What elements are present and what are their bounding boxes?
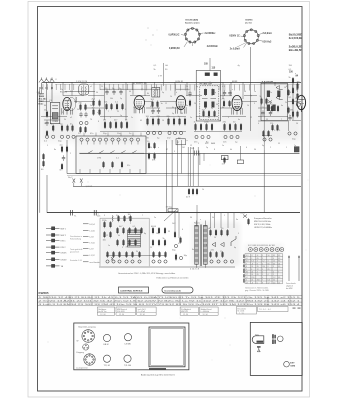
wire stub bbox=[99, 169, 101, 173]
svg-text:MW KW: MW KW bbox=[181, 311, 188, 313]
wire bbox=[39, 87, 41, 213]
svg-text:101: 101 bbox=[182, 147, 185, 149]
svg-text:2: 2 bbox=[230, 105, 231, 107]
svg-text:9: 9 bbox=[228, 117, 229, 119]
tube socket diagram U101 bbox=[184, 27, 200, 43]
push-button switch unit box bbox=[76, 136, 146, 173]
wire link bbox=[186, 95, 202, 97]
panel jack EB M bbox=[103, 334, 110, 341]
wire riser to IF box bbox=[209, 58, 211, 71]
voltage table header labels bbox=[248, 244, 275, 247]
resistor R109 bbox=[216, 251, 218, 258]
svg-text:24: 24 bbox=[278, 263, 280, 265]
diode D1 bbox=[276, 86, 283, 90]
resistor R7 bbox=[80, 104, 82, 111]
svg-text:4: 4 bbox=[268, 274, 269, 276]
resistor R28 bbox=[158, 118, 160, 126]
resistor R114 bbox=[288, 107, 290, 114]
svg-text:9p: 9p bbox=[196, 86, 198, 88]
svg-text:9: 9 bbox=[262, 282, 263, 284]
capacitor C42 bbox=[261, 110, 264, 116]
wire drop bbox=[230, 82, 232, 96]
wire link bbox=[44, 119, 60, 121]
svg-text:Bd.I0,3/5E: Bd.I0,3/5E bbox=[289, 32, 302, 36]
svg-text:-8: -8 bbox=[246, 277, 248, 279]
svg-text:x: x bbox=[200, 219, 201, 221]
wire drop x240 bbox=[240, 146, 242, 160]
svg-text:33: 33 bbox=[266, 119, 268, 121]
wire vertical x188 bbox=[187, 147, 189, 186]
resistor R15 bbox=[106, 103, 108, 110]
wire link bbox=[258, 107, 272, 109]
wire drop bbox=[163, 82, 165, 86]
svg-text:4k: 4k bbox=[118, 235, 120, 237]
wire link bbox=[262, 135, 272, 137]
wire bus y153 bbox=[80, 152, 300, 154]
scan artifact bbox=[145, 27, 157, 45]
resistor R64 bbox=[66, 146, 68, 153]
svg-text:-8: -8 bbox=[251, 282, 253, 284]
tube V1b ghost envelope bbox=[67, 97, 75, 110]
mains plug symbol bbox=[252, 336, 264, 352]
parts table sub box D bbox=[237, 307, 257, 316]
resistor R12 bbox=[99, 109, 101, 116]
svg-text:30: 30 bbox=[190, 217, 192, 219]
svg-text:25: 25 bbox=[101, 86, 103, 88]
resistor R107 bbox=[227, 229, 229, 236]
svg-text:alt. frei: alt. frei bbox=[245, 21, 252, 24]
capacitor C8 bbox=[79, 112, 82, 118]
tube top view U2 bbox=[254, 248, 258, 252]
svg-text:ECC EBF ECH EF89 EL AZ EM: ECC EBF ECH EF89 EL AZ EM bbox=[248, 244, 275, 247]
electrolytic C60 bbox=[210, 260, 213, 263]
svg-text:17: 17 bbox=[246, 282, 248, 284]
wire stub bbox=[89, 169, 91, 173]
capacitor C35 bbox=[228, 90, 231, 96]
electrolytic C54 bbox=[131, 260, 134, 263]
svg-text:12. 34: 12. 34 bbox=[140, 314, 145, 316]
wire AVC line bbox=[55, 83, 300, 85]
svg-text:7: 7 bbox=[142, 215, 143, 217]
scan specks bbox=[48, 165, 309, 361]
ratio detector T3 can bbox=[261, 83, 287, 120]
electrolytic C45 bbox=[263, 138, 266, 141]
svg-text:97: 97 bbox=[141, 89, 143, 91]
resistor R115 bbox=[297, 93, 299, 100]
resistor R53 bbox=[297, 83, 299, 90]
svg-text:Gegentakt-ausgang: Gegentakt-ausgang bbox=[78, 326, 96, 329]
svg-text:0: 0 bbox=[257, 282, 258, 284]
resistor R57 bbox=[263, 130, 265, 137]
svg-text:12: 12 bbox=[106, 235, 108, 237]
svg-text:-8: -8 bbox=[246, 258, 248, 260]
rectifier diode D3 bbox=[212, 242, 216, 246]
coil can L1 bbox=[79, 84, 89, 95]
resistor R5 bbox=[67, 125, 69, 132]
capacitor C47 bbox=[62, 155, 65, 161]
wire link bbox=[220, 95, 232, 97]
wire drop x67 bbox=[66, 140, 68, 174]
svg-text:Drucktasten in: Drucktasten in bbox=[70, 235, 82, 238]
resistor R9 bbox=[93, 100, 95, 107]
svg-text:Entbrummer auf Minimum einstel: Entbrummer auf Minimum einstellen bbox=[157, 277, 189, 280]
svg-text:L1,16: L1,16 bbox=[90, 230, 96, 232]
svg-text:geg. Chassis 220V~ St. MW: geg. Chassis 220V~ St. MW bbox=[245, 289, 269, 292]
svg-text:2xU300Hz: 2xU300Hz bbox=[205, 33, 217, 35]
resistor R18 bbox=[122, 103, 124, 110]
svg-text:8k: 8k bbox=[147, 93, 149, 95]
svg-text:KW 1: KW 1 bbox=[61, 241, 67, 243]
svg-text:7: 7 bbox=[262, 280, 263, 282]
svg-text:6p: 6p bbox=[157, 106, 159, 108]
coil L4 bbox=[112, 216, 113, 222]
svg-text:EF89: EF89 bbox=[232, 81, 238, 83]
left margin black mark bbox=[39, 94, 46, 106]
resistor R73 bbox=[130, 215, 132, 222]
wire link bbox=[147, 130, 186, 132]
wire vertical x172 bbox=[171, 140, 173, 213]
IF transformer T2 dashed can bbox=[200, 86, 219, 120]
svg-text:17M: 17M bbox=[97, 158, 101, 160]
wire bus y212.8 bbox=[47, 212, 300, 214]
svg-text:L1,12: L1,12 bbox=[90, 255, 96, 257]
switch legend wire L2,9 bbox=[83, 248, 89, 250]
svg-text:0,5: 0,5 bbox=[55, 121, 58, 123]
wire resistor row link bbox=[106, 255, 166, 257]
wire link bbox=[84, 107, 104, 109]
svg-text:5: 5 bbox=[238, 233, 239, 235]
wire drop bbox=[209, 81, 211, 84]
svg-text:1,2: 1,2 bbox=[262, 261, 264, 263]
transformer core lines bbox=[200, 225, 201, 267]
audio stage boundary bbox=[100, 218, 149, 266]
svg-text:Zwischenkr.: Zwischenkr. bbox=[286, 282, 296, 285]
svg-text:2x0,9mA: 2x0,9mA bbox=[262, 32, 272, 35]
resistor R81 bbox=[135, 227, 137, 234]
IF unit top terminal 10 bbox=[214, 73, 218, 76]
resistor R91 bbox=[132, 251, 134, 258]
wire drop left bbox=[46, 175, 48, 213]
svg-text:45: 45 bbox=[140, 120, 142, 122]
electrolytic C40 bbox=[230, 135, 233, 138]
dial window bbox=[149, 327, 185, 367]
svg-text:W: W bbox=[77, 341, 79, 343]
electrolytic C61 bbox=[217, 260, 220, 263]
wire drop x204 bbox=[203, 153, 205, 161]
svg-text:I-M M0: I-M M0 bbox=[125, 343, 132, 345]
svg-text:47: 47 bbox=[178, 243, 180, 245]
resistor R76 bbox=[104, 231, 106, 238]
indicator jack EZ bbox=[278, 336, 284, 342]
svg-text:2n: 2n bbox=[90, 105, 92, 107]
svg-text:1: 1 bbox=[199, 119, 200, 121]
wire drop x200 bbox=[199, 153, 201, 165]
svg-text:9: 9 bbox=[262, 274, 263, 276]
svg-text:2M: 2M bbox=[290, 110, 293, 112]
switch legend contact KW 2 bbox=[46, 246, 60, 249]
svg-text:0,1: 0,1 bbox=[222, 86, 225, 88]
panel jack T,2L M0 bbox=[124, 355, 131, 362]
wire stub bbox=[95, 133, 97, 137]
svg-text:1M log: 1M log bbox=[166, 207, 173, 209]
svg-text:12: 12 bbox=[250, 117, 252, 119]
svg-text:1p: 1p bbox=[120, 115, 122, 117]
svg-text:2M: 2M bbox=[194, 103, 197, 105]
svg-text:7: 7 bbox=[108, 111, 109, 113]
resistor R83 bbox=[117, 239, 119, 246]
svg-text:85: 85 bbox=[278, 261, 280, 263]
resistor R104 bbox=[210, 229, 212, 236]
wire link bbox=[41, 116, 67, 118]
wire link bbox=[88, 95, 104, 97]
electrolytic C11 bbox=[85, 121, 88, 124]
svg-text:1n: 1n bbox=[61, 89, 63, 91]
wire grid line V1 bbox=[65, 91, 95, 93]
tube V3 ECH81 bbox=[176, 96, 186, 114]
note below voltage table bbox=[245, 287, 269, 293]
svg-text:70: 70 bbox=[226, 235, 228, 237]
svg-text:Lautsprecher: Lautsprecher bbox=[76, 367, 88, 370]
IF unit shield box bbox=[196, 71, 220, 122]
svg-text:8: 8 bbox=[268, 266, 269, 268]
parts table row text bbox=[39, 296, 300, 306]
wire link bbox=[258, 120, 288, 122]
wire drop bbox=[227, 213, 229, 228]
svg-text:85: 85 bbox=[273, 255, 275, 257]
X cap in audio row bbox=[111, 257, 114, 260]
wire vertical x193 bbox=[192, 147, 194, 186]
legend mid notes bbox=[70, 235, 83, 262]
svg-text:4: 4 bbox=[273, 272, 274, 274]
socket U101 pin leads bbox=[181, 33, 204, 47]
svg-text:65: 65 bbox=[278, 277, 280, 279]
resistor R65 bbox=[61, 163, 63, 170]
svg-text:85: 85 bbox=[257, 266, 259, 268]
capacitor C26 bbox=[157, 108, 160, 114]
electrolytic C67 bbox=[294, 132, 297, 135]
wire vertical x198 bbox=[197, 147, 199, 186]
capacitor C16 bbox=[105, 89, 108, 95]
svg-text:ECC85: ECC85 bbox=[60, 92, 68, 94]
svg-text:6: 6 bbox=[182, 229, 183, 231]
svg-text:33: 33 bbox=[168, 231, 170, 233]
svg-text:6p: 6p bbox=[234, 247, 236, 249]
resistor R62 bbox=[121, 161, 123, 168]
resistor R38 bbox=[229, 100, 231, 107]
svg-text:UKW1: UKW1 bbox=[61, 253, 68, 255]
power transformer T4 secondary winding bbox=[203, 226, 207, 265]
svg-text:3: 3 bbox=[262, 255, 263, 257]
svg-text:6: 6 bbox=[290, 92, 291, 94]
svg-text:x: x bbox=[158, 147, 159, 149]
capacitor C2 bbox=[45, 120, 48, 126]
electrolytic C41 bbox=[236, 135, 239, 138]
wire vertical x190 bbox=[190, 147, 192, 186]
wire drop bbox=[125, 82, 127, 120]
svg-text:7: 7 bbox=[246, 263, 247, 265]
svg-text:85: 85 bbox=[278, 255, 280, 257]
svg-text:65: 65 bbox=[278, 258, 280, 260]
svg-text:10: 10 bbox=[162, 120, 164, 122]
electrolytic C63 bbox=[230, 260, 233, 263]
electrolytic C30 bbox=[168, 131, 171, 134]
tube top view U4 bbox=[265, 248, 269, 252]
wire bus y175.5 bbox=[67, 175, 301, 177]
switch legend wire L7,10 bbox=[83, 242, 89, 244]
resistor R110 bbox=[222, 251, 224, 258]
svg-text:17: 17 bbox=[251, 255, 253, 257]
wire riser x250 bbox=[250, 47, 252, 131]
switch contact F1 bbox=[195, 151, 199, 156]
svg-text:п: п bbox=[187, 140, 188, 142]
wire drop bbox=[104, 82, 106, 120]
wire vertical x177 bbox=[177, 140, 179, 186]
svg-text:3k: 3k bbox=[136, 251, 138, 253]
resistor R21 bbox=[115, 121, 117, 129]
wire vertical x264 bbox=[263, 150, 265, 213]
svg-text:6,3: 6,3 bbox=[70, 91, 73, 93]
resistor R45 bbox=[235, 123, 237, 131]
resistor R105 bbox=[215, 229, 217, 236]
resistor R116 bbox=[297, 111, 299, 118]
svg-text:Si0,5: Si0,5 bbox=[240, 213, 246, 215]
resistor R51 bbox=[292, 77, 294, 84]
svg-text:EL84: EL84 bbox=[151, 226, 157, 228]
terminal TL bbox=[71, 210, 73, 216]
resistor R70 bbox=[224, 157, 226, 164]
electrolytic C58 bbox=[164, 260, 167, 263]
resistor R6 bbox=[72, 125, 74, 132]
electrolytic C3 bbox=[45, 135, 48, 138]
wire drop x175 bbox=[174, 213, 176, 232]
wire bbox=[79, 152, 144, 154]
resistor R98 bbox=[164, 239, 166, 246]
power transformer T4 primary winding bbox=[195, 226, 199, 265]
resistor R22 bbox=[121, 121, 123, 129]
electrolytic C51 bbox=[112, 260, 115, 263]
svg-text:88: 88 bbox=[181, 113, 183, 115]
svg-text:1k: 1k bbox=[170, 96, 172, 98]
resistor R23 bbox=[126, 121, 128, 129]
switch legend wire L1,16 bbox=[83, 229, 89, 231]
svg-text:250: 250 bbox=[251, 277, 254, 279]
svg-text:47: 47 bbox=[208, 117, 210, 119]
tube V1 ECC85 bbox=[62, 97, 72, 114]
panel jack T2,1 M bbox=[103, 355, 110, 362]
tube top view U6 bbox=[275, 248, 279, 252]
switch wafer contact S4 bbox=[98, 138, 101, 141]
wire vertical x181 bbox=[181, 140, 183, 174]
resistor R121 bbox=[192, 188, 194, 195]
svg-text:Kontakte 1-16: Kontakte 1-16 bbox=[70, 259, 82, 262]
resistor R103 bbox=[180, 237, 182, 244]
wire drop bbox=[292, 82, 294, 120]
svg-text:2: 2 bbox=[270, 147, 271, 149]
resistor R1 bbox=[46, 111, 48, 118]
wire link bbox=[244, 95, 257, 97]
svg-text:U300V 1C: U300V 1C bbox=[229, 35, 240, 37]
left margin band label bbox=[37, 92, 40, 94]
antenna terminals bbox=[39, 78, 55, 89]
svg-text:3p: 3p bbox=[172, 113, 174, 115]
wire drop bbox=[222, 82, 224, 99]
wire drop bbox=[154, 82, 156, 88]
svg-text:L7,10: L7,10 bbox=[90, 243, 96, 245]
svg-text:12: 12 bbox=[273, 261, 275, 263]
switch wafer contact S6 bbox=[111, 138, 114, 141]
svg-text:2n: 2n bbox=[270, 92, 272, 94]
resistor R88 bbox=[113, 251, 115, 258]
svg-text:8: 8 bbox=[214, 149, 215, 151]
wire B+ bus bbox=[42, 81, 301, 83]
parts table sub box nach Nr 8 bbox=[137, 307, 156, 316]
fuse Si bbox=[243, 215, 247, 218]
wire link bbox=[166, 107, 180, 109]
svg-text:4: 4 bbox=[199, 107, 200, 109]
electrolytic C64 bbox=[179, 256, 182, 259]
pot arrow long bbox=[164, 209, 177, 221]
switch legend wire L1,12 bbox=[83, 254, 89, 256]
resistor R113 bbox=[288, 89, 290, 96]
wire stub bbox=[140, 133, 142, 137]
svg-text:3: 3 bbox=[257, 261, 258, 263]
svg-text:Änderung Und.st.ge Bme 2204 G: Änderung Und.st.ge Bme 2204 GwO1 bbox=[141, 374, 176, 377]
wire comb stubs bbox=[43, 84, 297, 91]
wire audio bottom bbox=[99, 266, 235, 268]
svg-text:2x1,5U0,3E: 2x1,5U0,3E bbox=[289, 36, 302, 40]
resistor R55 bbox=[272, 124, 274, 131]
svg-text:9p: 9p bbox=[262, 145, 264, 147]
svg-text:5n: 5n bbox=[190, 117, 192, 119]
resistor R86 bbox=[135, 239, 137, 246]
svg-text:8p: 8p bbox=[144, 233, 146, 235]
wire drop bbox=[132, 82, 134, 94]
resistor R71 bbox=[118, 215, 120, 222]
resistor R99 bbox=[153, 251, 155, 258]
svg-text:3: 3 bbox=[262, 269, 263, 271]
svg-text:510-1620: 510-1620 bbox=[117, 311, 125, 313]
electrolytic C62 bbox=[224, 260, 227, 263]
switch lever contacts bbox=[88, 151, 137, 154]
svg-text:3n: 3n bbox=[186, 105, 188, 107]
svg-text:MW 1: MW 1 bbox=[61, 228, 67, 230]
resistor R77 bbox=[110, 231, 112, 238]
mains switch S-net bbox=[231, 236, 236, 246]
resistor R80 bbox=[129, 227, 131, 234]
svg-text:Taste gedrückt: Taste gedrückt bbox=[70, 248, 83, 251]
border frame bbox=[38, 7, 303, 392]
capacitor C49 X bbox=[80, 179, 83, 187]
electrolytic C36 bbox=[195, 135, 198, 138]
switch legend wire L6,14 bbox=[83, 223, 89, 225]
svg-text:1k: 1k bbox=[247, 105, 249, 107]
resistor R66 bbox=[148, 142, 150, 149]
switch legend contact UKW2 bbox=[46, 258, 60, 261]
svg-text:6n: 6n bbox=[238, 119, 240, 121]
socket U102 pin leads bbox=[241, 34, 263, 48]
svg-text:L: L bbox=[45, 79, 46, 81]
resistor R94 bbox=[158, 227, 160, 234]
resistor R11 bbox=[93, 109, 95, 116]
svg-text:8: 8 bbox=[251, 269, 252, 271]
electrolytic C50 bbox=[106, 260, 109, 263]
svg-text:1k: 1k bbox=[202, 189, 204, 191]
resistor R97 bbox=[158, 239, 160, 246]
switch legend wire zus.Geräte bbox=[83, 261, 89, 263]
svg-text:2k: 2k bbox=[214, 237, 216, 239]
indicator jack EXT bbox=[284, 361, 290, 367]
svg-text:ECH81: ECH81 bbox=[246, 20, 254, 22]
